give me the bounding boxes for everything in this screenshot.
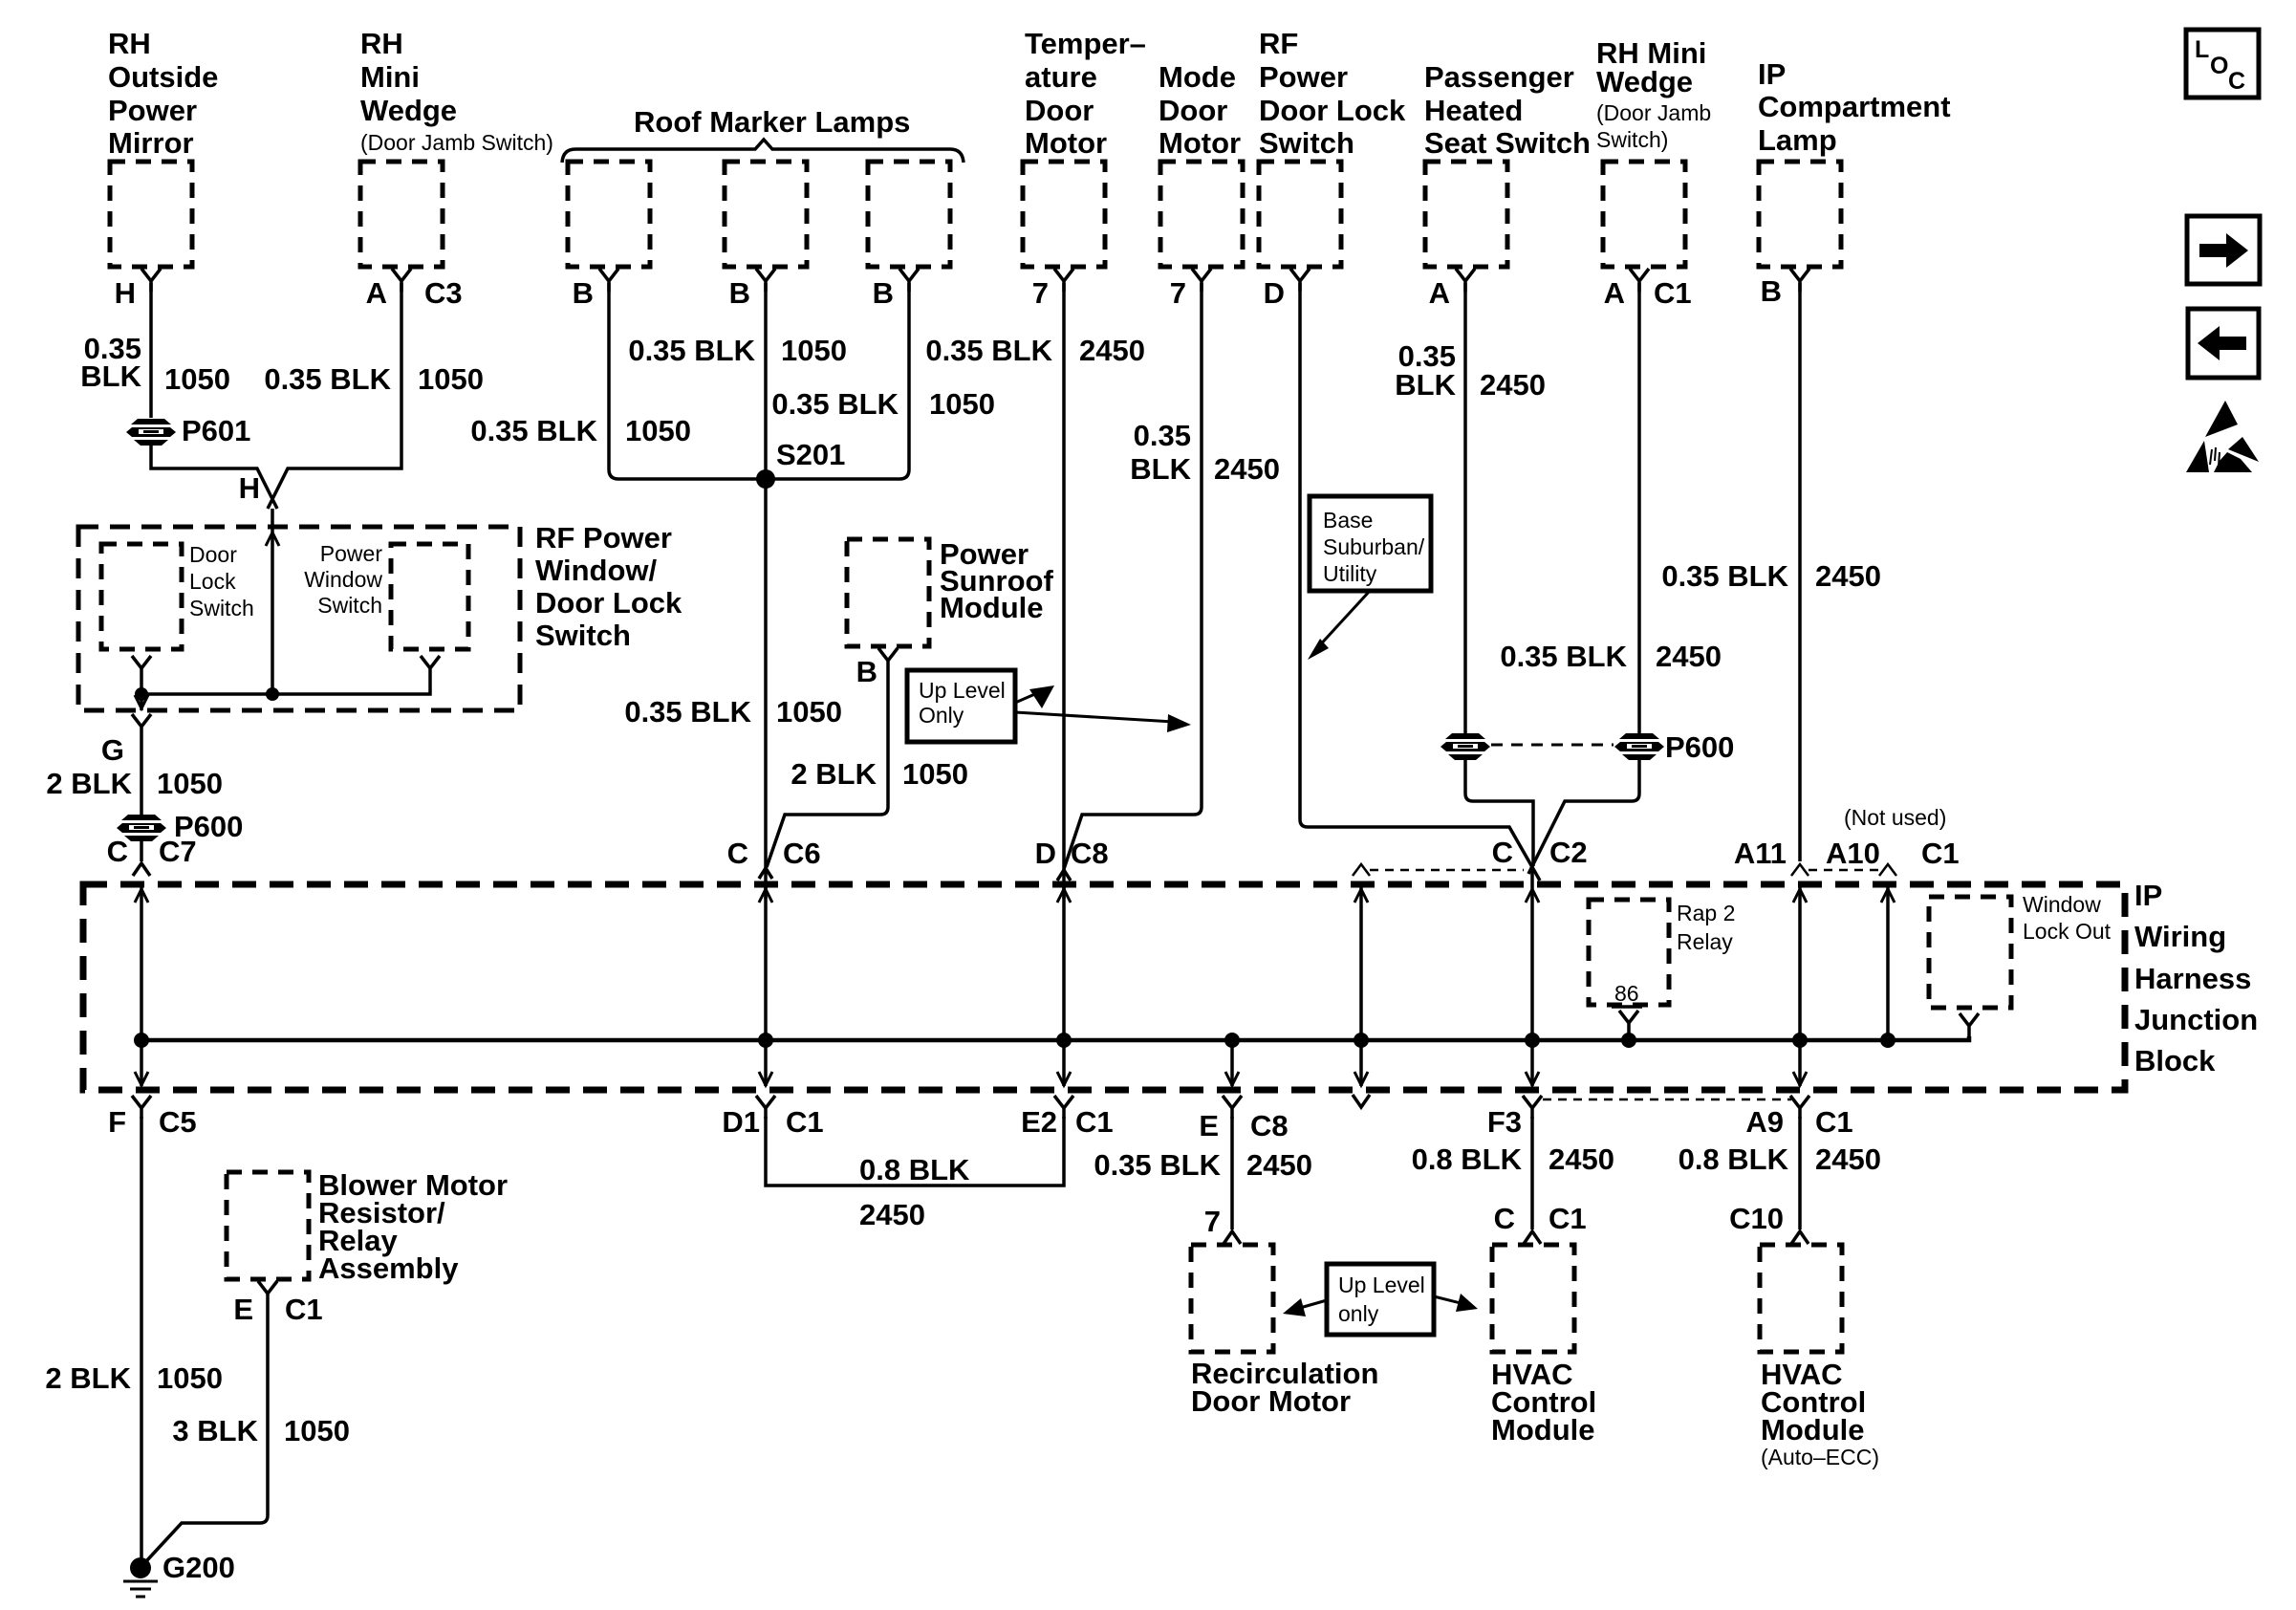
pin 7 of Mode Door Motor [1170, 269, 1211, 310]
svg-text:7: 7 [1204, 1205, 1221, 1238]
inline connector H [239, 471, 272, 535]
svg-text:(Auto–ECC): (Auto–ECC) [1761, 1445, 1879, 1469]
connector box: Mode Door Motor [1159, 60, 1243, 267]
svg-text:Window: Window [2023, 892, 2101, 917]
svg-text:Switch: Switch [189, 596, 254, 620]
svg-text:Harness: Harness [2134, 962, 2251, 995]
svg-text:Suburban/: Suburban/ [1323, 534, 1425, 559]
bus wire inside junction block [141, 1036, 1969, 1040]
inline connector C / C2 labels [1492, 836, 1588, 869]
svg-text:C: C [1494, 1202, 1515, 1235]
svg-text:C1: C1 [1921, 837, 1960, 870]
svg-text:Module: Module [1761, 1413, 1865, 1447]
svg-text:0.8 BLK: 0.8 BLK [1412, 1142, 1523, 1176]
connector box: HVAC Control Module (Auto-ECC) [1760, 1245, 1879, 1469]
inline connector D / C8 labels [1035, 837, 1109, 881]
svg-text:Heated: Heated [1424, 94, 1523, 127]
svg-text:RF Power: RF Power [535, 521, 672, 555]
svg-text:Compartment: Compartment [1758, 90, 1951, 123]
svg-text:1050: 1050 [625, 414, 691, 447]
pin B of Roof Marker Lamp 3 [873, 269, 919, 310]
svg-text:7: 7 [1032, 276, 1049, 310]
connector A9 / C1 [1745, 1096, 1852, 1139]
svg-text:Base: Base [1323, 508, 1373, 533]
pin B of Roof Marker Lamp 2 [729, 269, 775, 310]
svg-text:0.8 BLK: 0.8 BLK [859, 1153, 970, 1186]
wire: internal bus of switch assembly [135, 679, 430, 701]
pin B of Power Sunroof Module [856, 648, 898, 688]
svg-text:Door: Door [189, 542, 237, 567]
svg-text:2450: 2450 [1549, 1142, 1614, 1176]
svg-text:H: H [115, 276, 136, 310]
svg-text:G: G [101, 733, 124, 767]
svg-text:C: C [727, 837, 748, 870]
connector box: IP Compartment Lamp [1758, 57, 1951, 267]
svg-text:Window/: Window/ [535, 554, 658, 587]
svg-text:C1: C1 [786, 1105, 824, 1139]
svg-text:G200: G200 [162, 1551, 235, 1584]
svg-text:2450: 2450 [1246, 1148, 1312, 1182]
connector box: HVAC Control Module [1491, 1245, 1596, 1447]
connector box: RH Mini Wedge (Door Jamb Switch) [360, 27, 553, 267]
svg-text:C5: C5 [159, 1105, 197, 1139]
pin B of IP Compartment Lamp [1761, 269, 1809, 308]
wire: A9/C1 to HVAC control module Auto-ECC, 0.8 BLK 2450, pin C10 [1679, 1117, 1881, 1244]
svg-text:Utility: Utility [1323, 561, 1377, 586]
svg-text:Rap 2: Rap 2 [1677, 901, 1735, 925]
svg-text:2450: 2450 [859, 1198, 925, 1231]
svg-text:Roof Marker Lamps: Roof Marker Lamps [634, 105, 910, 139]
connector box: Roof Marker Lamp 2 [725, 162, 807, 267]
wire: D1/C1 to E2/C1 link, 0.8 BLK 2450 [766, 1117, 1064, 1231]
svg-text:Power: Power [320, 541, 383, 566]
svg-text:Relay: Relay [1677, 929, 1733, 954]
svg-text:C10: C10 [1729, 1202, 1784, 1235]
svg-text:D: D [1264, 276, 1285, 310]
svg-text:Power: Power [1259, 60, 1348, 94]
svg-text:3 BLK: 3 BLK [172, 1414, 258, 1447]
callout box: Up Level Only (sunroof) [907, 670, 1191, 742]
svg-text:(Not used): (Not used) [1844, 805, 1946, 830]
wire: roof marker lamp 2 drop, 0.35 BLK 1050 [628, 283, 847, 479]
svg-text:1050: 1050 [157, 767, 223, 800]
connector D1 / C1 [722, 1096, 823, 1139]
splice S201 [756, 438, 845, 489]
svg-text:1050: 1050 [164, 362, 230, 396]
pin D of RF Power Door Lock Switch [1264, 269, 1310, 310]
svg-text:0.35 BLK: 0.35 BLK [264, 362, 391, 396]
left-arrow legend icon [2188, 309, 2259, 378]
svg-text:Switch: Switch [535, 619, 631, 652]
wire: switch assembly to pin G [135, 694, 148, 710]
svg-text:0.35 BLK: 0.35 BLK [624, 695, 751, 729]
svg-text:0.35 BLK: 0.35 BLK [771, 387, 899, 421]
wire: junction block leg C7 to F with splice [134, 881, 149, 1086]
svg-text:C8: C8 [1250, 1109, 1289, 1142]
connector box: Recirculation Door Motor [1191, 1245, 1378, 1418]
svg-text:Mirror: Mirror [108, 126, 194, 160]
wire: F/C5 to ground G200, 2 BLK 1050 [45, 1117, 223, 1558]
pin B of Roof Marker Lamp 1 [573, 269, 618, 310]
svg-text:(Door Jamb: (Door Jamb [1596, 100, 1711, 125]
callout box: Up Level only (HVAC) [1283, 1264, 1478, 1335]
svg-text:Up Level: Up Level [1338, 1273, 1425, 1297]
wire: roof marker lamp 1 drop, 0.35 BLK 1050 [470, 283, 760, 479]
svg-text:Wedge: Wedge [1596, 65, 1693, 98]
connector E2 / C1 [1021, 1096, 1114, 1139]
svg-text:ature: ature [1025, 60, 1097, 94]
wire: IP compartment lamp to junction block A11, 0.35 BLK 2450 [1661, 283, 1881, 861]
svg-text:C3: C3 [424, 276, 463, 310]
svg-text:2450: 2450 [1079, 334, 1145, 367]
wire: junction block leg A10 to bus [1880, 881, 1895, 1048]
junction block: IP Wiring Harness Junction Block [83, 879, 2258, 1090]
svg-text:Window: Window [304, 567, 382, 592]
wire: junction block leg C8 to E2 with splice [1056, 881, 1072, 1086]
option dashed wire F3 to A9 [1543, 1099, 1791, 1101]
svg-text:Door Lock: Door Lock [1259, 94, 1406, 127]
wire: splice S201 to junction block C6 [764, 479, 768, 899]
pin E / C1 of Blower Motor Resistor [233, 1281, 322, 1326]
inline connector C / C2 to junction block leg F3 [1525, 866, 1540, 1086]
wire: option leg through junction block [1353, 881, 1370, 1107]
inner box: Power Window Switch [304, 541, 468, 649]
wire: mirror pin H to splice H, 0.35 BLK 1050 [80, 283, 277, 509]
svg-text:B: B [873, 276, 894, 310]
connector box: RF Power Door Lock Switch [1259, 27, 1406, 267]
svg-text:F3: F3 [1487, 1105, 1522, 1139]
svg-text:Switch: Switch [1259, 126, 1354, 160]
inline connector H into RF power window switch assembly [266, 533, 279, 694]
svg-text:86: 86 [1614, 981, 1639, 1006]
svg-text:C7: C7 [159, 835, 197, 868]
svg-text:Junction: Junction [2134, 1003, 2258, 1036]
svg-text:1050: 1050 [929, 387, 995, 421]
svg-text:Assembly: Assembly [318, 1251, 459, 1285]
svg-text:S201: S201 [776, 438, 845, 471]
connector E / C8 [1199, 1096, 1288, 1142]
wire: temperature door motor to junction block C8, 0.35 BLK 2450 [925, 283, 1145, 899]
svg-text:IP: IP [2134, 879, 2162, 912]
svg-text:B: B [1761, 274, 1782, 308]
svg-text:O: O [2210, 53, 2228, 79]
ESD warning symbol [2186, 401, 2259, 472]
svg-text:Lock Out: Lock Out [2023, 919, 2112, 944]
pin of Door Lock Switch [132, 656, 151, 679]
connector box: Roof Marker Lamp 1 [568, 162, 650, 267]
svg-text:RH: RH [108, 27, 151, 60]
connector box: Roof Marker Lamp 3 [868, 162, 950, 267]
svg-text:A: A [366, 276, 387, 310]
callout box: Base Suburban/Utility [1308, 496, 1431, 660]
svg-text:2450: 2450 [1656, 640, 1722, 673]
svg-text:C1: C1 [285, 1293, 323, 1326]
svg-text:Module: Module [940, 591, 1044, 624]
connector F3 [1487, 1096, 1542, 1139]
svg-text:E: E [233, 1293, 253, 1326]
inner box: Door Lock Switch [101, 542, 254, 649]
wire: G to junction block C7, 2 BLK 1050 [46, 737, 223, 861]
svg-text:Only: Only [919, 703, 964, 728]
svg-text:C: C [1492, 836, 1513, 869]
connector box: Passenger Heated Seat Switch [1424, 60, 1591, 267]
svg-text:A9: A9 [1745, 1105, 1784, 1139]
pin H of RH Outside Power Mirror [115, 269, 161, 310]
svg-text:C1: C1 [1654, 276, 1692, 310]
svg-text:F: F [108, 1105, 126, 1139]
svg-text:0.35 BLK: 0.35 BLK [1500, 640, 1627, 673]
svg-text:Wiring: Wiring [2134, 920, 2226, 953]
svg-text:Door Motor: Door Motor [1191, 1384, 1351, 1418]
right-arrow legend icon [2187, 216, 2260, 284]
svg-text:(Door Jamb Switch): (Door Jamb Switch) [360, 130, 553, 155]
svg-text:RF: RF [1259, 27, 1298, 60]
svg-text:Mini: Mini [360, 60, 420, 94]
svg-text:Mode: Mode [1159, 60, 1236, 94]
svg-text:Switch: Switch [317, 593, 382, 618]
svg-text:A: A [1429, 276, 1450, 310]
svg-text:Module: Module [1491, 1413, 1595, 1447]
svg-text:C8: C8 [1071, 837, 1109, 870]
wire: blower motor resistor to ground G200, 3 BLK 1050 [146, 1304, 350, 1561]
wire: E/C8 to recirculation door motor, 0.35 BLK 2450, pin 7 [1094, 1117, 1312, 1244]
svg-text:Lamp: Lamp [1758, 123, 1837, 157]
svg-text:D: D [1035, 837, 1056, 870]
svg-text:B: B [573, 276, 594, 310]
connector F / C5 [108, 1096, 197, 1139]
svg-text:E: E [1199, 1109, 1219, 1142]
wire: RH mini wedge right to C2, 0.35 BLK 2450 [1500, 283, 1722, 874]
svg-text:Door: Door [1025, 94, 1094, 127]
svg-text:Power: Power [108, 94, 197, 127]
pin A / connector C3 of RH Mini Wedge [366, 269, 463, 310]
svg-text:Temper–: Temper– [1025, 27, 1146, 60]
pin A / connector C1 of RH Mini Wedge right [1604, 269, 1692, 310]
svg-text:Passenger: Passenger [1424, 60, 1574, 94]
connector box: Blower Motor Resistor/Relay Assembly [227, 1168, 508, 1285]
svg-text:C6: C6 [783, 837, 821, 870]
connector box: RH Outside Power Mirror [108, 27, 218, 267]
wire: F3 to HVAC control module, 0.8 BLK 2450, pin C / C1 [1412, 1117, 1614, 1244]
svg-text:Motor: Motor [1159, 126, 1241, 160]
svg-text:C1: C1 [1075, 1105, 1114, 1139]
svg-text:only: only [1338, 1301, 1379, 1326]
svg-text:B: B [729, 276, 750, 310]
wire: Rap 2 Relay pin 86 to bus [1619, 1011, 1638, 1048]
svg-text:1050: 1050 [781, 334, 847, 367]
svg-text:Wedge: Wedge [360, 94, 457, 127]
svg-text:0.35 BLK: 0.35 BLK [1661, 559, 1788, 593]
svg-text:BLK: BLK [1395, 368, 1456, 402]
svg-text:C: C [2228, 68, 2245, 95]
svg-text:Seat Switch: Seat Switch [1424, 126, 1591, 160]
svg-text:2450: 2450 [1815, 559, 1881, 593]
svg-text:C1: C1 [1815, 1105, 1853, 1139]
pin 7 of Temperature Door Motor [1032, 269, 1073, 310]
svg-text:C2: C2 [1549, 836, 1588, 869]
wire: junction block leg C6 to D1 with splice [758, 881, 773, 1086]
svg-text:D1: D1 [722, 1105, 760, 1139]
svg-text:0.35 BLK: 0.35 BLK [470, 414, 597, 447]
svg-text:2 BLK: 2 BLK [45, 1361, 131, 1395]
inline connector C / C6 labels [727, 837, 821, 879]
svg-text:BLK: BLK [80, 359, 141, 393]
svg-text:RH: RH [360, 27, 403, 60]
wire: power sunroof module to C6, 0.35 BLK 1050 / 2 BLK 1050 [624, 671, 968, 867]
svg-text:C1: C1 [1549, 1202, 1587, 1235]
svg-text:A: A [1604, 276, 1625, 310]
svg-text:P600: P600 [1665, 730, 1734, 764]
wire: passenger heated seat switch to C2, 0.35 BLK 2450 [1395, 283, 1546, 866]
svg-text:C: C [107, 835, 128, 868]
svg-text:L: L [2195, 36, 2209, 63]
svg-text:B: B [856, 655, 877, 688]
svg-text:0.35 BLK: 0.35 BLK [925, 334, 1052, 367]
connector box: Temperature Door Motor [1023, 27, 1146, 267]
outer dashed box: RF Power Window/Door Lock Switch [78, 521, 682, 710]
svg-text:0.35 BLK: 0.35 BLK [628, 334, 755, 367]
grommet P600 on ground wire [117, 810, 243, 843]
wire: mode door motor merge at C8, 0.35 BLK 2450 [1064, 283, 1280, 869]
grommet P601 [126, 414, 250, 447]
inline connector C / C7 [107, 835, 197, 876]
wire: Window Lock Out to bus [1960, 1013, 1979, 1036]
wire: junction block leg A11 to A9 with splice [1792, 881, 1808, 1086]
grommet P600 pair with link [1440, 730, 1734, 764]
svg-text:E2: E2 [1021, 1105, 1057, 1139]
svg-text:0.35: 0.35 [1134, 419, 1191, 452]
svg-text:1050: 1050 [157, 1361, 223, 1395]
svg-text:0.8 BLK: 0.8 BLK [1679, 1142, 1789, 1176]
svg-text:Motor: Motor [1025, 126, 1107, 160]
svg-text:2450: 2450 [1815, 1142, 1881, 1176]
svg-text:Outside: Outside [108, 60, 218, 94]
svg-text:A10: A10 [1826, 837, 1880, 870]
relay box: Rap 2 Relay, pin 86 [1589, 900, 1735, 1007]
svg-text:Block: Block [2134, 1044, 2216, 1077]
pin G below switch assembly [101, 714, 151, 767]
wire: RH mini wedge pin A to splice H, 0.35 BLK 1050 [264, 283, 484, 509]
svg-text:A11: A11 [1734, 837, 1787, 870]
svg-text:P601: P601 [182, 414, 250, 447]
svg-text:H: H [239, 471, 260, 505]
pin A of Passenger Heated Seat Switch [1429, 269, 1475, 310]
svg-text:Lock: Lock [189, 569, 236, 594]
svg-text:1050: 1050 [902, 757, 968, 791]
svg-text:2450: 2450 [1480, 368, 1546, 402]
svg-text:7: 7 [1170, 276, 1186, 310]
connector A11 / A10 / C1 labels, (Not used) [1734, 805, 1960, 876]
connector box: RH Mini Wedge (Door Jamb Switch) right [1596, 36, 1711, 267]
svg-text:Up Level: Up Level [919, 678, 1006, 703]
pin of Power Window Switch [421, 656, 440, 679]
svg-text:1050: 1050 [284, 1414, 350, 1447]
svg-text:Door Lock: Door Lock [535, 586, 682, 620]
option wire chevron above block at C2 branch [1353, 864, 1524, 876]
relay box: Window Lock Out [1929, 892, 2112, 1008]
wire: RF power door lock switch to junction block C2 [1300, 283, 1540, 881]
svg-text:Door: Door [1159, 94, 1227, 127]
wire: junction block splice to E [1224, 1033, 1240, 1086]
svg-text:2 BLK: 2 BLK [791, 757, 877, 791]
svg-text:1050: 1050 [776, 695, 842, 729]
wire: roof marker lamp 3 drop, 0.35 BLK 1050 [771, 283, 995, 479]
svg-text:0.35 BLK: 0.35 BLK [1094, 1148, 1221, 1182]
svg-text:IP: IP [1758, 57, 1786, 91]
LOC legend icon [2186, 30, 2259, 98]
svg-text:1050: 1050 [418, 362, 484, 396]
svg-text:BLK: BLK [1130, 452, 1191, 486]
connector box: Power Sunroof Module [847, 537, 1053, 646]
svg-text:2 BLK: 2 BLK [46, 767, 132, 800]
ground G200 [123, 1551, 235, 1597]
brace and label: Roof Marker Lamps [562, 105, 964, 163]
svg-text:2450: 2450 [1214, 452, 1280, 486]
svg-text:Switch): Switch) [1596, 127, 1668, 152]
